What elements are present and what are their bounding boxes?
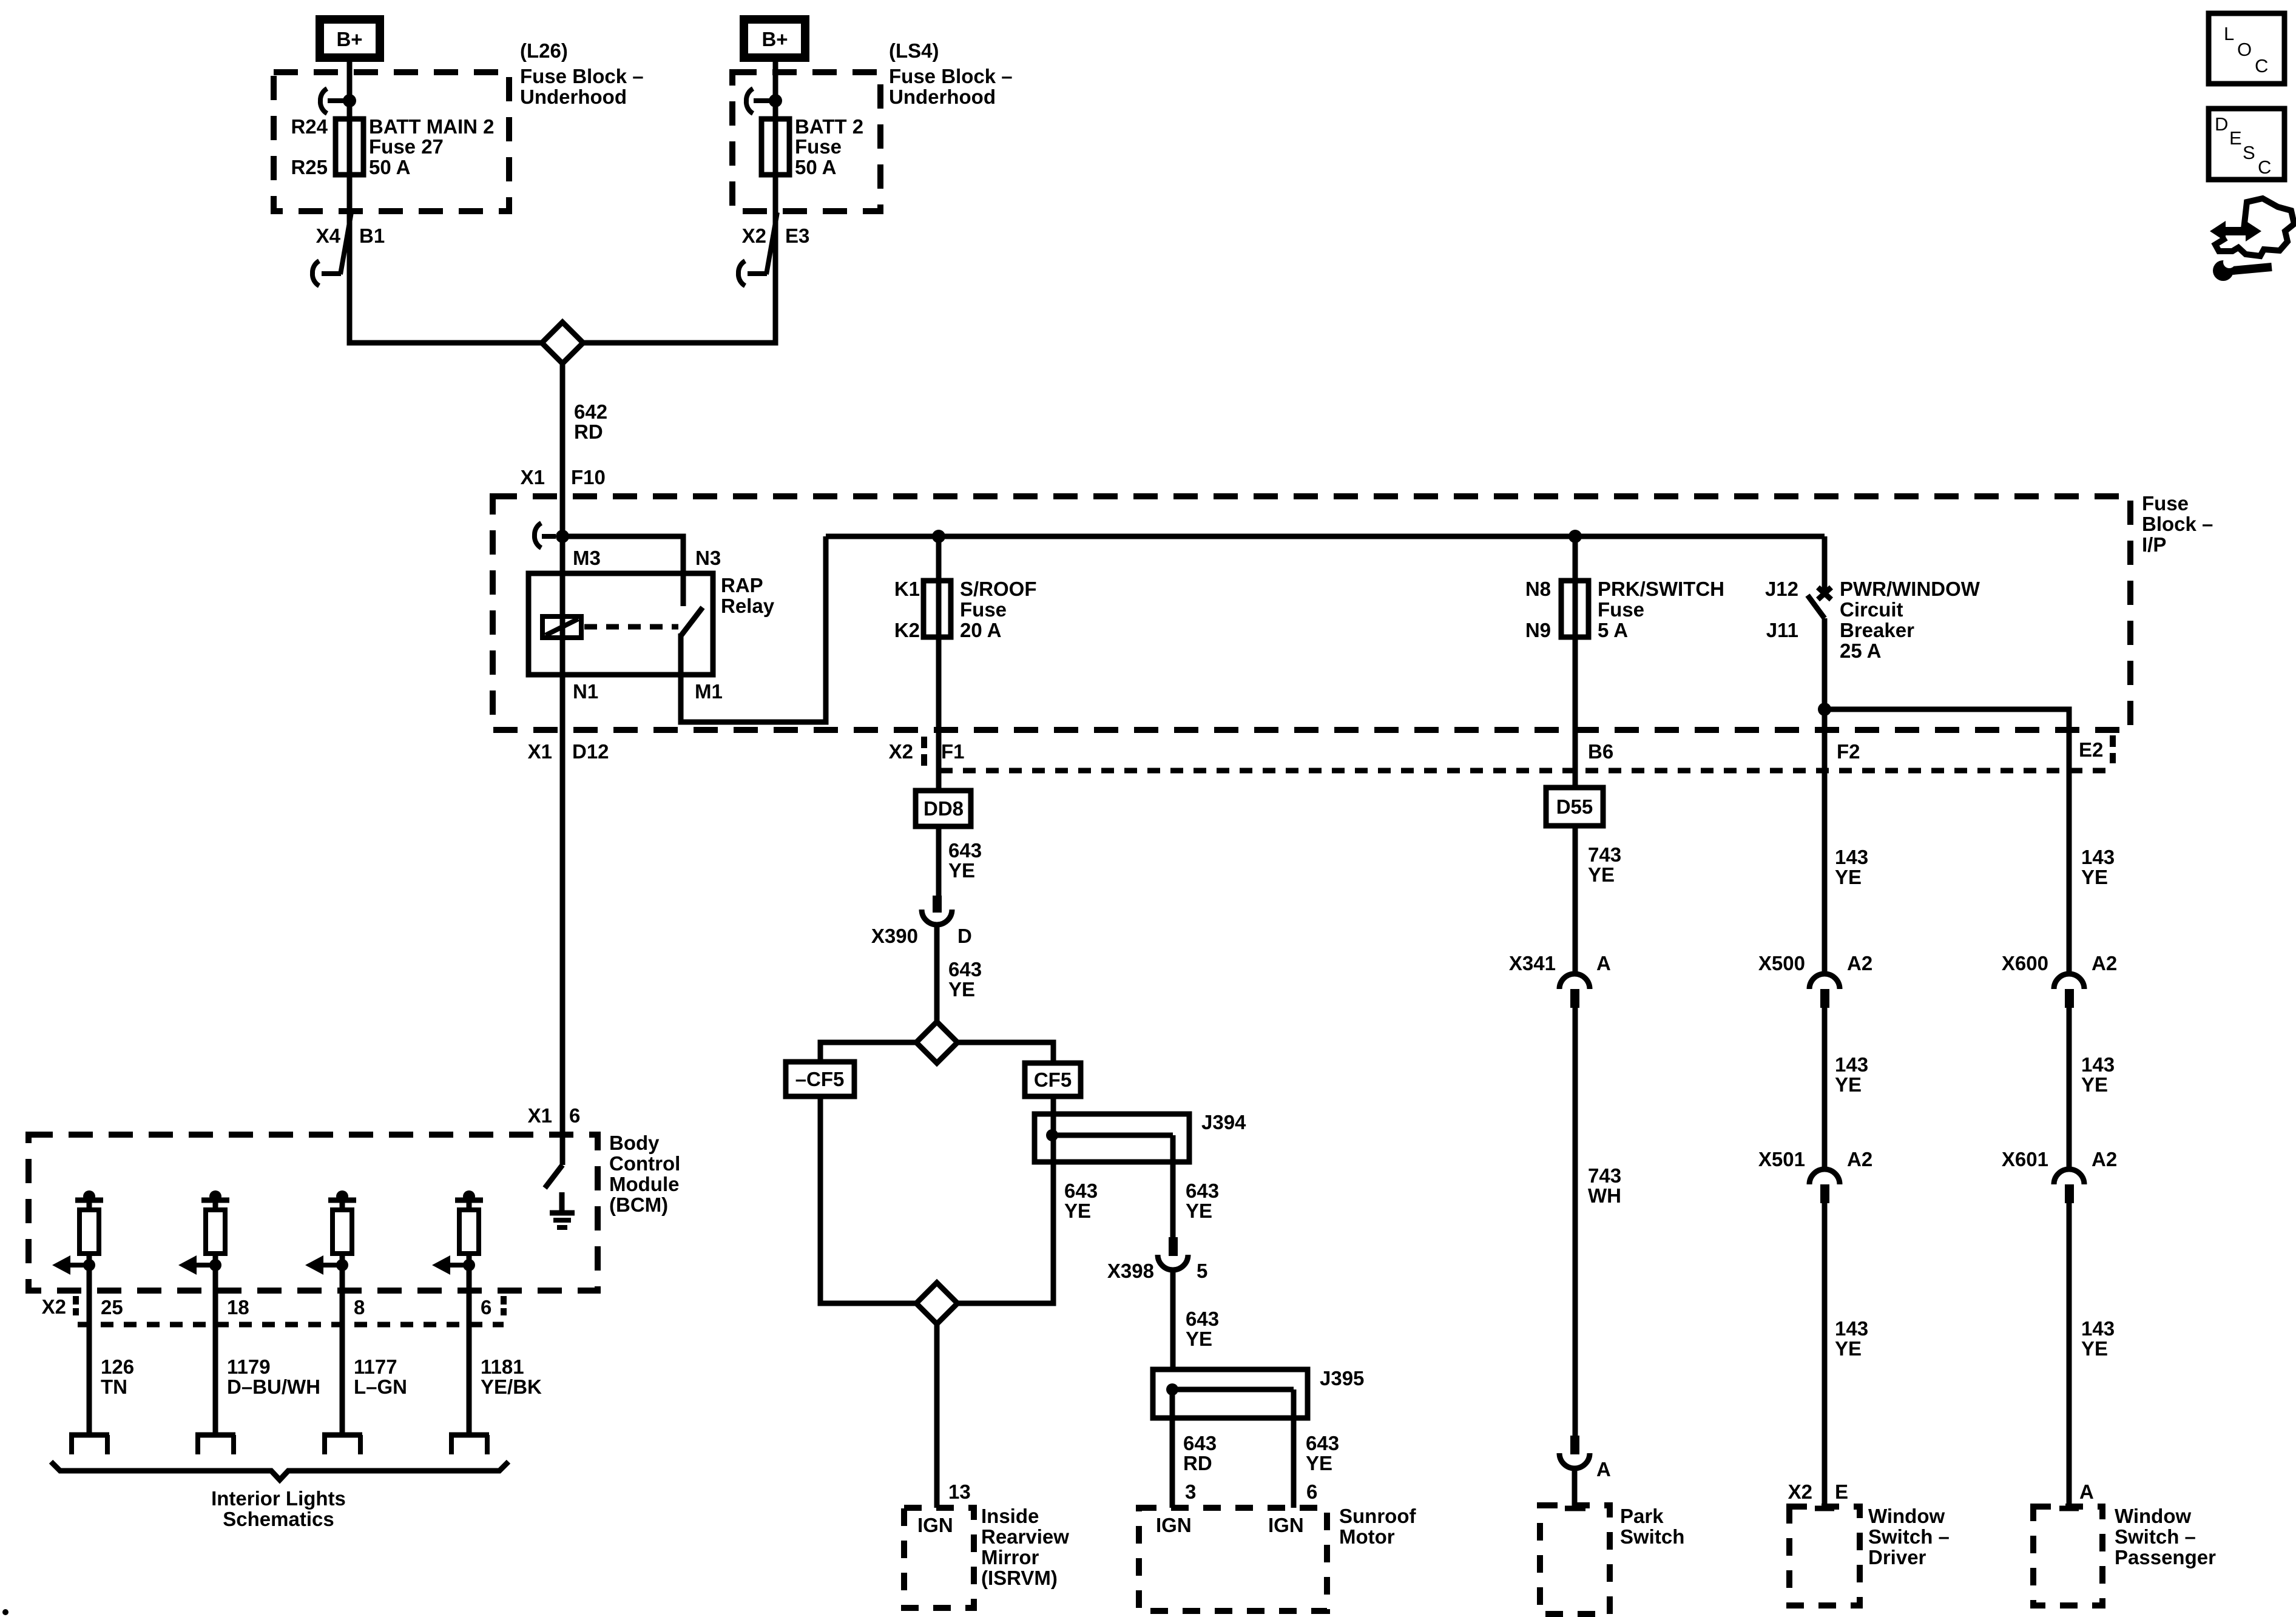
svg-text:25 A: 25 A — [1840, 640, 1881, 662]
svg-text:642: 642 — [574, 400, 607, 423]
wire from BATT 2 fuse to diamond — [582, 175, 775, 343]
wire bus across fuse block I/P — [826, 534, 1825, 539]
label X341 A — [1509, 952, 1611, 974]
label J395 — [1320, 1367, 1364, 1389]
svg-text:TN: TN — [101, 1376, 127, 1398]
svg-text:WH: WH — [1588, 1184, 1621, 1207]
junction dot X1 F10 — [556, 530, 569, 543]
svg-text:Body: Body — [609, 1132, 660, 1154]
svg-text:YE/BK: YE/BK — [481, 1376, 542, 1398]
label X1 F10 — [521, 466, 606, 488]
svg-text:X4: X4 — [316, 224, 341, 247]
svg-text:B1: B1 — [359, 224, 385, 247]
svg-text:5 A: 5 A — [1598, 619, 1628, 641]
label Interior Lights Schematics — [211, 1487, 346, 1530]
svg-text:20 A: 20 A — [960, 619, 1001, 641]
svg-text:BATT 2: BATT 2 — [795, 115, 863, 138]
svg-text:Schematics: Schematics — [223, 1508, 334, 1530]
svg-text:743: 743 — [1588, 1164, 1621, 1187]
svg-text:X1: X1 — [528, 1104, 552, 1127]
svg-text:F2: F2 — [1837, 740, 1860, 763]
svg-text:L: L — [2224, 23, 2234, 44]
svg-text:Underhood: Underhood — [889, 86, 996, 108]
svg-text:143: 143 — [1835, 1317, 1868, 1340]
label 143 YE driver 3 — [1835, 1317, 1868, 1360]
svg-text:B+: B+ — [336, 28, 362, 50]
svg-text:D: D — [2215, 113, 2228, 135]
svg-text:Switch: Switch — [1620, 1525, 1684, 1548]
label 743 WH — [1588, 1164, 1621, 1207]
splice diamond CF5 — [916, 1022, 957, 1063]
connector DD8 box — [916, 791, 971, 826]
svg-text:50 A: 50 A — [369, 156, 410, 178]
svg-text:643: 643 — [1186, 1180, 1219, 1202]
connector X398 (pin and cup) — [1158, 1237, 1188, 1270]
label S/ROOF Fuse 20 A — [960, 578, 1037, 641]
circuit breaker blade — [1808, 595, 1825, 618]
wire B+ to fuse block L26 — [347, 62, 353, 121]
wire 743 YE — [1573, 826, 1578, 973]
svg-text:K1: K1 — [894, 578, 920, 600]
label X1 6 at BCM — [528, 1104, 581, 1127]
svg-text:O: O — [2237, 39, 2252, 60]
svg-text:643: 643 — [1306, 1432, 1339, 1454]
svg-text:A2: A2 — [2092, 1148, 2117, 1170]
svg-text:X398: X398 — [1107, 1260, 1154, 1282]
svg-text:YE: YE — [948, 859, 975, 882]
label N8 N9 — [1525, 578, 1551, 641]
wire terminal passenger — [2059, 1506, 2079, 1511]
svg-text:M3: M3 — [573, 547, 601, 569]
label 643 RD — [1183, 1432, 1217, 1474]
label Window Switch Driver — [1868, 1505, 1950, 1568]
label X500 A2 — [1758, 952, 1872, 974]
svg-text:Switch –: Switch – — [1868, 1525, 1950, 1548]
interior lights branch 3 — [305, 1190, 362, 1454]
svg-text:Fuse: Fuse — [795, 135, 842, 158]
label X398 5 — [1107, 1260, 1207, 1282]
svg-text:R25: R25 — [291, 156, 328, 178]
wire breaker feed down from bus — [1822, 536, 1828, 590]
svg-text:C: C — [2258, 157, 2271, 178]
junction dot PRK branch — [1568, 530, 1582, 543]
svg-text:N9: N9 — [1525, 619, 1551, 641]
svg-text:(BCM): (BCM) — [609, 1193, 668, 1216]
wire to CF5 — [957, 1042, 1053, 1064]
label Body Control Module (BCM) — [609, 1132, 680, 1216]
svg-text:643: 643 — [1064, 1180, 1098, 1202]
svg-text:643: 643 — [948, 958, 982, 981]
label Sunroof Motor — [1339, 1505, 1416, 1548]
svg-text:YE: YE — [1306, 1452, 1332, 1474]
wire S/ROOF fuse branch — [936, 536, 942, 792]
icon DESC box — [2209, 109, 2284, 180]
svg-text:6: 6 — [569, 1104, 580, 1127]
label X2 E3 — [742, 224, 810, 247]
label Fuse Block I/P — [2142, 492, 2213, 556]
splice pack J394 box — [1035, 1114, 1189, 1162]
label X501 A2 — [1758, 1148, 1872, 1170]
svg-text:Window: Window — [1868, 1505, 1945, 1527]
svg-text:1181: 1181 — [481, 1355, 524, 1378]
label X2 pins row — [42, 1295, 504, 1318]
label 643 YE right — [1186, 1180, 1219, 1222]
junction dot E2 branch — [1818, 703, 1831, 716]
svg-text:143: 143 — [2081, 846, 2115, 868]
svg-text:X2: X2 — [1788, 1480, 1812, 1503]
label 143 YE driver 2 — [1835, 1053, 1868, 1096]
svg-text:L–GN: L–GN — [354, 1376, 407, 1398]
svg-text:Inside: Inside — [981, 1505, 1039, 1527]
wire to ISRVM — [934, 1324, 940, 1508]
svg-text:C: C — [2255, 55, 2268, 76]
svg-text:YE: YE — [1835, 1337, 1862, 1360]
page corner dot — [2, 1609, 8, 1615]
svg-text:J394: J394 — [1201, 1111, 1246, 1133]
clip symbol at L26 entry — [320, 89, 343, 113]
label X1 D12 — [528, 740, 609, 763]
label 143 YE passenger 1 — [2081, 846, 2115, 888]
svg-text:A2: A2 — [2092, 952, 2117, 974]
svg-text:X1: X1 — [528, 740, 552, 763]
svg-text:Switch –: Switch – — [2115, 1525, 2196, 1548]
wire main feed through relay to BCM — [560, 496, 566, 1165]
svg-text:YE: YE — [1835, 1073, 1862, 1096]
svg-text:Driver: Driver — [1868, 1546, 1926, 1568]
svg-text:A2: A2 — [1847, 1148, 1872, 1170]
wire 643 YE below DD8 — [936, 826, 942, 896]
interior lights branch 2 — [178, 1190, 235, 1454]
svg-text:X341: X341 — [1509, 952, 1556, 974]
svg-text:E2: E2 — [2079, 738, 2103, 761]
label 642 RD — [574, 400, 607, 443]
power symbol B+ (LS4 feed) — [740, 15, 809, 62]
fuse PRK/SWITCH — [1561, 581, 1589, 637]
connector X341 (dome and pin) — [1559, 974, 1590, 1008]
label pin 3 — [1185, 1480, 1196, 1503]
fuse S/ROOF — [923, 581, 951, 637]
label X600 A2 — [2002, 952, 2117, 974]
svg-text:Fuse 27: Fuse 27 — [369, 135, 444, 158]
svg-text:J12: J12 — [1765, 578, 1798, 600]
svg-text:Module: Module — [609, 1173, 679, 1195]
svg-text:A: A — [2079, 1480, 2094, 1503]
brace interior lights — [51, 1462, 508, 1480]
svg-text:B6: B6 — [1588, 740, 1613, 763]
svg-text:YE: YE — [2081, 1337, 2108, 1360]
power symbol B+ (L26 feed) — [316, 15, 384, 62]
label 1177 L-GN — [354, 1355, 407, 1398]
svg-text:Fuse: Fuse — [960, 598, 1007, 621]
label 126 TN — [101, 1355, 134, 1398]
connector X500 (dome and pin) — [1809, 974, 1840, 1008]
connector D55 box — [1546, 788, 1603, 826]
svg-text:IGN: IGN — [1156, 1514, 1192, 1536]
svg-text:YE: YE — [1588, 863, 1615, 886]
label A passenger — [2079, 1480, 2094, 1503]
window switch driver dashed box — [1789, 1507, 1860, 1605]
svg-text:(LS4): (LS4) — [889, 39, 939, 62]
svg-text:643: 643 — [1186, 1308, 1219, 1330]
svg-text:J11: J11 — [1766, 619, 1798, 641]
svg-text:1177: 1177 — [354, 1355, 397, 1378]
svg-text:X390: X390 — [871, 925, 918, 947]
splice diamond lower — [916, 1283, 957, 1324]
label J12 J11 — [1765, 578, 1798, 641]
BCM internal switch blade — [545, 1165, 562, 1188]
svg-text:F10: F10 — [571, 466, 606, 488]
label 743 YE — [1588, 843, 1621, 886]
svg-text:Circuit: Circuit — [1840, 598, 1903, 621]
svg-text:Fuse: Fuse — [1598, 598, 1644, 621]
relay coil — [542, 616, 581, 638]
svg-text:PWR/WINDOW: PWR/WINDOW — [1840, 578, 1980, 600]
wire PRK/SWITCH branch — [1573, 536, 1578, 788]
svg-text:25: 25 — [101, 1296, 123, 1318]
fuse block underhood (LS4) dashed box — [732, 72, 880, 211]
svg-text:PRK/SWITCH: PRK/SWITCH — [1598, 578, 1724, 600]
svg-text:YE: YE — [1835, 866, 1862, 888]
label PWR/WINDOW Circuit Breaker 25 A — [1840, 578, 1980, 662]
fuse block I/P dashed box — [493, 496, 2130, 730]
svg-text:RAP: RAP — [721, 574, 763, 596]
svg-text:S: S — [2243, 142, 2255, 163]
svg-text:J395: J395 — [1320, 1367, 1364, 1389]
svg-text:E3: E3 — [785, 224, 809, 247]
svg-text:E: E — [2229, 127, 2242, 149]
svg-text:BATT MAIN 2: BATT MAIN 2 — [369, 115, 495, 138]
connector pass tick X4/B1 — [312, 212, 351, 286]
wire 743 WH — [1573, 1008, 1578, 1436]
svg-text:X2: X2 — [889, 740, 913, 763]
label 643 YE — [948, 839, 982, 882]
label X2 E — [1788, 1480, 1848, 1503]
svg-text:IGN: IGN — [917, 1514, 953, 1536]
svg-text:X600: X600 — [2002, 952, 2048, 974]
label 143 YE passenger 2 — [2081, 1053, 2115, 1096]
svg-text:A2: A2 — [1847, 952, 1872, 974]
label 643 YE left — [1064, 1180, 1098, 1222]
svg-text:Relay: Relay — [721, 595, 775, 617]
svg-text:RD: RD — [1183, 1452, 1212, 1474]
svg-text:6: 6 — [481, 1296, 491, 1318]
connector X601 (dome and pin) — [2054, 1169, 2084, 1203]
label 643 YE below X398 — [1186, 1308, 1219, 1350]
svg-text:8: 8 — [354, 1296, 365, 1318]
fuse F27 BATT MAIN 2 — [336, 118, 363, 176]
svg-text:RD: RD — [574, 420, 603, 443]
park switch dashed box — [1540, 1505, 1610, 1614]
svg-text:F1: F1 — [941, 740, 965, 763]
svg-text:X2: X2 — [742, 224, 766, 247]
svg-text:143: 143 — [1835, 1053, 1868, 1076]
label 1179 D-BU/WH — [227, 1355, 320, 1398]
label 1181 YE/BK — [481, 1355, 542, 1398]
svg-text:M1: M1 — [695, 680, 723, 703]
svg-text:CF5: CF5 — [1034, 1068, 1072, 1091]
svg-text:X2: X2 — [42, 1295, 66, 1318]
svg-text:–CF5: –CF5 — [795, 1068, 845, 1090]
label RAP Relay — [721, 574, 775, 617]
svg-text:743: 743 — [1588, 843, 1621, 866]
svg-text:5: 5 — [1197, 1260, 1207, 1282]
ground symbol in BCM — [550, 1192, 575, 1227]
wire M3 branch to relay switch — [562, 536, 683, 606]
svg-text:X501: X501 — [1758, 1148, 1805, 1170]
label 143 YE driver 1 — [1835, 846, 1868, 888]
wire 642 RD down to fuse block I/P — [560, 363, 566, 498]
label R24 R25 — [291, 115, 328, 178]
svg-text:Fuse: Fuse — [2142, 492, 2189, 515]
wire to -CF5 — [820, 1042, 916, 1063]
label pin 6 — [1306, 1480, 1317, 1503]
label Park Switch — [1620, 1505, 1684, 1548]
label J394 — [1201, 1111, 1246, 1133]
svg-text:D: D — [957, 925, 972, 947]
svg-text:E: E — [1835, 1480, 1848, 1503]
sunroof motor dashed box — [1139, 1508, 1327, 1611]
wire M1 to bus — [681, 536, 826, 722]
svg-text:Control: Control — [609, 1152, 680, 1175]
svg-text:D55: D55 — [1556, 795, 1593, 818]
relay RAP box — [528, 573, 713, 675]
wire breaker to window switch driver — [1822, 618, 1828, 1507]
svg-text:Block –: Block – — [2142, 513, 2213, 535]
relay coil-switch dashed link — [584, 624, 678, 630]
svg-text:YE: YE — [1064, 1200, 1091, 1222]
svg-text:Window: Window — [2115, 1505, 2191, 1527]
svg-text:Sunroof: Sunroof — [1339, 1505, 1416, 1527]
svg-text:18: 18 — [227, 1296, 249, 1318]
label 643 YE — [1306, 1432, 1339, 1474]
label N1 M1 — [573, 680, 723, 703]
node CF5 box — [1025, 1063, 1081, 1096]
junction dot L26 — [343, 94, 356, 107]
dotted connector row line — [940, 768, 2113, 774]
wire B+ to fuse block LS4 — [773, 62, 778, 121]
svg-text:I/P: I/P — [2142, 533, 2166, 556]
svg-text:Mirror: Mirror — [981, 1546, 1039, 1568]
svg-text:X500: X500 — [1758, 952, 1805, 974]
wire terminal driver — [1815, 1506, 1834, 1511]
connector X390 (pin and cup) — [922, 896, 952, 925]
clip symbol at LS4 entry — [746, 89, 769, 113]
clip symbol at I/P entry — [535, 523, 556, 548]
interior lights branch 4 — [432, 1190, 489, 1454]
svg-text:K2: K2 — [894, 619, 920, 641]
svg-text:X1: X1 — [521, 466, 545, 488]
node -CF5 box — [786, 1062, 854, 1096]
wire J395 right leg to sunroof motor — [1291, 1389, 1297, 1508]
connector X501 (dome and pin) — [1809, 1169, 1840, 1203]
svg-text:Park: Park — [1620, 1505, 1664, 1527]
circuit breaker X contact — [1818, 587, 1831, 599]
wire -CF5 down to lower diamond — [820, 1096, 917, 1303]
junction dot LS4 — [769, 94, 782, 107]
inside rearview mirror dashed box — [904, 1508, 974, 1608]
svg-text:(ISRVM): (ISRVM) — [981, 1567, 1058, 1589]
svg-text:D12: D12 — [572, 740, 609, 763]
label E2 row — [2079, 735, 2113, 763]
connector X600 (dome and pin) — [2054, 974, 2084, 1008]
label Window Switch Passenger — [2115, 1505, 2216, 1568]
label B6 — [1588, 740, 1613, 763]
wire J395 left leg to sunroof motor — [1170, 1389, 1175, 1508]
svg-text:YE: YE — [948, 978, 975, 1001]
svg-text:643: 643 — [1183, 1432, 1217, 1454]
body control module dashed box — [29, 1135, 598, 1291]
label PRK/SWITCH Fuse 5 A — [1598, 578, 1724, 641]
svg-text:YE: YE — [1186, 1328, 1212, 1350]
svg-text:R24: R24 — [291, 115, 328, 138]
wire X398 to J395 — [1170, 1270, 1176, 1369]
label X601 A2 — [2002, 1148, 2117, 1170]
icon car with arrow and wrench — [2210, 198, 2294, 281]
interior lights branch 1 — [52, 1190, 109, 1454]
dotted connector row line BCM — [78, 1322, 504, 1328]
wire from fuse to diamond (642 RD) — [349, 175, 543, 343]
label 143 YE passenger 3 — [2081, 1317, 2115, 1360]
svg-text:YE: YE — [1186, 1200, 1212, 1222]
connector to park switch (pin and cup) — [1559, 1436, 1590, 1468]
svg-text:A: A — [1596, 1458, 1611, 1480]
svg-text:3: 3 — [1185, 1480, 1196, 1503]
label pin 13 — [948, 1480, 971, 1503]
svg-text:N3: N3 — [695, 547, 721, 569]
svg-text:Fuse Block –: Fuse Block – — [520, 65, 644, 87]
window switch passenger dashed box — [2033, 1507, 2102, 1605]
svg-text:Passenger: Passenger — [2115, 1546, 2216, 1568]
svg-text:N1: N1 — [573, 680, 598, 703]
splice pack J395 box — [1153, 1369, 1308, 1418]
icon LOC box — [2209, 13, 2284, 84]
svg-text:13: 13 — [948, 1480, 971, 1503]
label (L26) Fuse Block Underhood — [520, 39, 644, 108]
label X390 D — [871, 925, 972, 947]
label BATT MAIN 2 Fuse 27 50 A — [369, 115, 495, 178]
svg-text:50 A: 50 A — [795, 156, 836, 178]
connector pass tick X2/E3 — [738, 212, 777, 286]
splice diamond (feeds join) — [542, 322, 583, 363]
svg-text:YE: YE — [2081, 866, 2108, 888]
label Inside Rearview Mirror (ISRVM) — [981, 1505, 1069, 1589]
svg-text:N8: N8 — [1525, 578, 1551, 600]
svg-text:A: A — [1596, 952, 1611, 974]
svg-text:S/ROOF: S/ROOF — [960, 578, 1037, 600]
svg-text:143: 143 — [2081, 1317, 2115, 1340]
svg-text:Fuse Block –: Fuse Block – — [889, 65, 1013, 87]
svg-text:Motor: Motor — [1339, 1525, 1395, 1548]
wire J394 branch down — [1170, 1135, 1176, 1238]
svg-text:YE: YE — [2081, 1073, 2108, 1096]
wire into park switch — [1565, 1468, 1585, 1508]
svg-text:6: 6 — [1306, 1480, 1317, 1503]
svg-text:1179: 1179 — [227, 1355, 271, 1378]
label (LS4) Fuse Block Underhood — [889, 39, 1013, 108]
label X2 F1 row — [889, 737, 965, 767]
svg-text:143: 143 — [1835, 846, 1868, 868]
svg-text:Breaker: Breaker — [1840, 619, 1914, 641]
svg-text:Interior Lights: Interior Lights — [211, 1487, 346, 1510]
svg-text:B+: B+ — [761, 28, 788, 50]
relay switch blade — [681, 607, 703, 636]
svg-text:143: 143 — [2081, 1053, 2115, 1076]
svg-text:DD8: DD8 — [923, 797, 964, 820]
junction dot S/ROOF branch — [932, 530, 945, 543]
fuse BATT 2 — [761, 118, 789, 176]
svg-text:D–BU/WH: D–BU/WH — [227, 1376, 320, 1398]
svg-text:Underhood: Underhood — [520, 86, 627, 108]
